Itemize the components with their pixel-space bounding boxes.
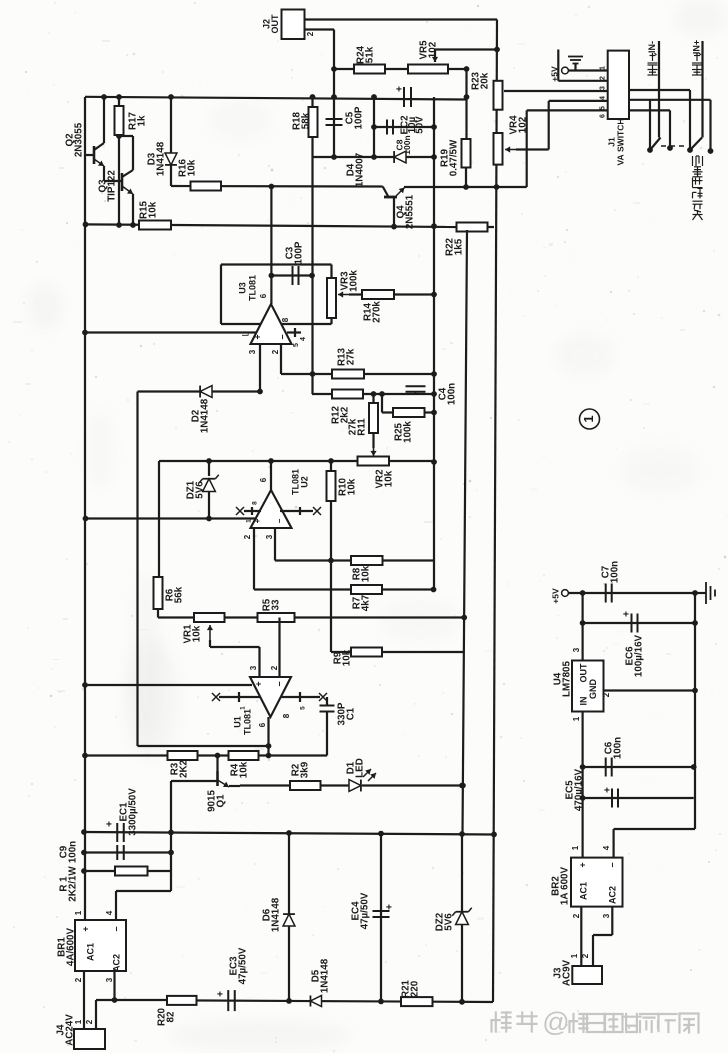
svg-text:1: 1 (74, 910, 83, 915)
svg-text:1: 1 (240, 706, 247, 710)
svg-text:2: 2 (74, 977, 83, 982)
svg-text:1N4148: 1N4148 (319, 958, 330, 993)
svg-text:2: 2 (306, 31, 315, 36)
svg-text:GND: GND (588, 679, 598, 700)
svg-text:+: + (622, 611, 633, 617)
svg-text:10k: 10k (383, 470, 394, 487)
svg-text:4: 4 (599, 96, 606, 100)
svg-text:4: 4 (602, 845, 611, 850)
svg-text:5: 5 (293, 343, 300, 347)
svg-text:470µ/16V: 470µ/16V (573, 768, 584, 811)
svg-text:2: 2 (581, 953, 590, 958)
svg-text:AC1: AC1 (85, 943, 95, 961)
svg-text:@: @ (542, 1007, 569, 1037)
svg-text:2N5551: 2N5551 (404, 194, 415, 229)
svg-text:100n: 100n (612, 737, 623, 759)
svg-text:5V6: 5V6 (194, 481, 205, 499)
svg-text:220: 220 (409, 980, 420, 997)
svg-text:U1: U1 (232, 716, 242, 728)
svg-text:TL081: TL081 (242, 709, 252, 735)
svg-text:TIP122: TIP122 (106, 170, 117, 202)
svg-text:8: 8 (281, 317, 290, 322)
svg-text:1: 1 (599, 66, 606, 70)
svg-text:10k: 10k (346, 478, 357, 495)
svg-text:U3: U3 (237, 282, 247, 294)
svg-text:1N4148: 1N4148 (270, 897, 281, 932)
svg-text:1N4148: 1N4148 (155, 141, 166, 176)
svg-text:+: + (252, 334, 262, 339)
svg-text:+: + (253, 681, 263, 686)
svg-text:2: 2 (243, 534, 252, 539)
svg-text:+5V: +5V (550, 588, 560, 604)
svg-text:100µ/16V: 100µ/16V (633, 634, 644, 677)
svg-text:2: 2 (85, 1019, 94, 1024)
svg-text:100P: 100P (353, 106, 364, 129)
svg-text:100n: 100n (609, 561, 620, 583)
svg-text:IN+: IN+ (691, 40, 701, 54)
svg-text:1: 1 (572, 716, 581, 721)
svg-text:+5V: +5V (549, 66, 559, 82)
svg-text:1: 1 (246, 519, 253, 523)
svg-text:1A 600V: 1A 600V (559, 866, 570, 905)
svg-text:0.47/5W: 0.47/5W (448, 139, 459, 176)
svg-text:3300µ/50V: 3300µ/50V (127, 788, 138, 836)
svg-text:6: 6 (258, 722, 267, 727)
svg-text:4k7: 4k7 (360, 594, 371, 611)
svg-text:27k: 27k (345, 348, 356, 365)
svg-text:1N4007: 1N4007 (354, 152, 365, 187)
svg-text:47µ/50V: 47µ/50V (237, 947, 248, 984)
svg-text:3: 3 (265, 534, 274, 539)
svg-text:+: + (385, 904, 396, 910)
svg-text:AC2: AC2 (111, 954, 121, 972)
svg-text:−: − (274, 681, 284, 686)
svg-text:50V: 50V (415, 116, 426, 134)
svg-text:−: − (111, 926, 121, 931)
svg-text:3: 3 (602, 913, 611, 918)
svg-text:AC9V: AC9V (561, 959, 572, 986)
svg-text:5V6: 5V6 (443, 913, 454, 931)
svg-text:100k: 100k (348, 270, 359, 292)
svg-text:−: − (607, 862, 617, 867)
svg-text:1: 1 (571, 845, 580, 850)
svg-text:2: 2 (602, 692, 611, 697)
svg-text:3: 3 (105, 977, 114, 982)
svg-text:VA SWITCH: VA SWITCH (615, 118, 625, 165)
svg-text:2: 2 (270, 665, 279, 670)
svg-text:4: 4 (105, 910, 114, 915)
svg-text:100n: 100n (67, 841, 78, 863)
svg-text:IN: IN (578, 697, 588, 706)
svg-text:4A/600V: 4A/600V (65, 927, 76, 966)
svg-text:2K2: 2K2 (178, 759, 189, 778)
svg-text:82: 82 (165, 1011, 176, 1022)
svg-text:+: + (577, 862, 587, 867)
svg-text:100P: 100P (293, 241, 304, 264)
svg-text:3k9: 3k9 (299, 761, 310, 778)
svg-text:10k: 10k (238, 761, 249, 778)
svg-text:+: + (80, 926, 90, 931)
svg-text:3: 3 (249, 665, 258, 670)
svg-text:Q1: Q1 (215, 794, 226, 808)
svg-text:270k: 270k (371, 301, 382, 323)
svg-text:+: + (603, 787, 614, 793)
svg-text:OUT: OUT (270, 14, 280, 34)
svg-text:1: 1 (570, 953, 579, 958)
svg-text:3: 3 (599, 86, 606, 90)
svg-text:10k: 10k (186, 159, 197, 176)
svg-text:10k: 10k (341, 649, 352, 666)
svg-text:4: 4 (300, 337, 307, 341)
svg-text:+: + (395, 86, 406, 92)
svg-text:1: 1 (74, 1019, 83, 1024)
svg-text:10k: 10k (147, 201, 158, 218)
svg-text:IN-: IN- (647, 41, 657, 53)
svg-text:1k: 1k (136, 115, 147, 126)
svg-text:AC24V: AC24V (64, 1014, 75, 1046)
svg-text:AC2: AC2 (607, 886, 617, 904)
svg-text:33: 33 (270, 599, 281, 610)
svg-text:100k: 100k (402, 421, 413, 443)
svg-text:L: L (240, 331, 250, 336)
svg-text:+: + (216, 991, 227, 997)
svg-text:+: + (105, 821, 116, 827)
svg-text:8: 8 (252, 501, 259, 505)
svg-text:2K2/1W: 2K2/1W (67, 866, 78, 902)
svg-text:2N3055: 2N3055 (73, 122, 84, 157)
svg-text:6: 6 (599, 114, 606, 118)
svg-text:3: 3 (572, 647, 581, 652)
svg-text:8: 8 (282, 713, 291, 718)
svg-text:−: − (275, 518, 284, 523)
svg-text:U2: U2 (299, 476, 309, 488)
svg-text:LED: LED (354, 758, 365, 778)
svg-text:2: 2 (599, 76, 606, 80)
svg-text:51k: 51k (364, 46, 375, 63)
svg-text:TL081: TL081 (247, 275, 257, 301)
svg-text:C1: C1 (345, 707, 356, 720)
svg-text:100n: 100n (446, 383, 457, 405)
svg-text:3: 3 (248, 349, 257, 354)
svg-text:47µ/50V: 47µ/50V (359, 892, 370, 929)
svg-text:LM7805: LM7805 (561, 660, 572, 696)
svg-text:1: 1 (581, 415, 596, 422)
svg-text:AC1: AC1 (578, 882, 588, 900)
svg-text:6: 6 (259, 293, 268, 298)
svg-text:6: 6 (259, 477, 268, 482)
svg-text:5: 5 (599, 106, 606, 110)
svg-text:1N4148: 1N4148 (199, 398, 210, 433)
svg-text:58k: 58k (300, 112, 311, 129)
svg-text:1k5: 1k5 (453, 238, 464, 255)
svg-text:OUT: OUT (578, 663, 588, 683)
svg-text:−: − (277, 334, 287, 339)
svg-text:2: 2 (271, 349, 280, 354)
svg-text:10k: 10k (360, 565, 371, 582)
svg-text:5: 5 (300, 706, 307, 710)
svg-text:R11: R11 (356, 418, 367, 436)
svg-text:10k: 10k (191, 625, 202, 642)
svg-text:20k: 20k (479, 72, 490, 89)
svg-text:2: 2 (572, 913, 581, 918)
svg-text:56k: 56k (173, 586, 184, 603)
